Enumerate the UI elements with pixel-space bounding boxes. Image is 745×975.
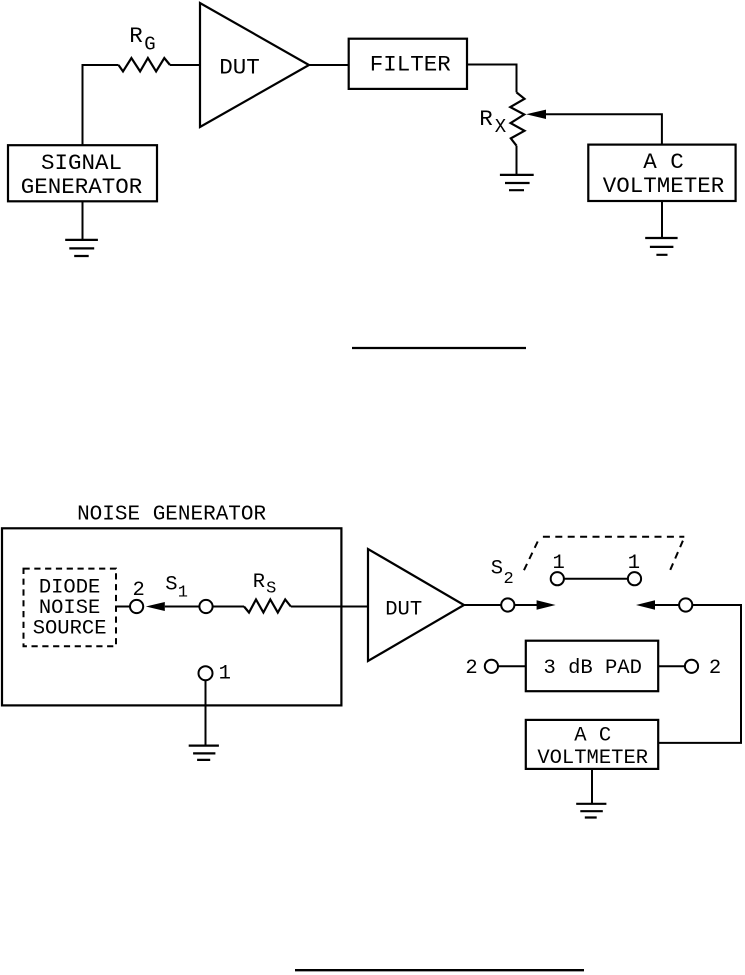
- wiper arrow wire to AC voltmeter: [526, 110, 546, 119]
- node terminal 1 (right): [628, 572, 641, 585]
- block AC VOLTMETER (bottom): [526, 720, 658, 769]
- wire terminal 2 to pad: [498, 665, 526, 667]
- wire ACV bottom to ground: [591, 769, 593, 804]
- svg-text:DUT: DUT: [219, 54, 260, 80]
- op-amp DUT (bottom): [368, 549, 464, 661]
- block FILTER: [349, 39, 467, 89]
- svg-text:R: R: [129, 23, 143, 49]
- svg-text:1: 1: [219, 663, 231, 686]
- op-amp DUT (top): [200, 3, 309, 127]
- svg-text:2: 2: [132, 579, 144, 602]
- svg-text:1: 1: [178, 584, 188, 603]
- wire between terminals 1-1: [564, 578, 628, 580]
- svg-text:GENERATOR: GENERATOR: [21, 174, 143, 200]
- wire SG to ground: [82, 201, 84, 240]
- arrow from S2: [514, 604, 538, 606]
- wire from signal generator to RG: [83, 65, 119, 145]
- block SIGNAL GENERATOR: [8, 145, 157, 201]
- svg-text:R: R: [253, 571, 265, 594]
- separator line (figure 2): [295, 969, 584, 971]
- node terminal 2 (left of pad): [485, 660, 498, 673]
- svg-text:2: 2: [709, 657, 721, 680]
- node (right switch contact): [679, 598, 692, 611]
- node switch S2: [501, 598, 514, 611]
- block 3 dB PAD: [526, 641, 658, 692]
- svg-text:S: S: [266, 580, 276, 599]
- resistor RG: [119, 58, 171, 71]
- node terminal 1 (left, S2 position 1): [551, 572, 564, 585]
- node terminal 2 (right of pad): [685, 660, 698, 673]
- svg-text:1: 1: [553, 552, 565, 575]
- wire DUT to FILTER: [309, 64, 349, 66]
- wire RX to ground: [516, 146, 518, 175]
- node terminal 2 (S1): [130, 600, 143, 613]
- svg-text:2: 2: [465, 657, 477, 680]
- svg-text:G: G: [144, 34, 155, 56]
- svg-text:1: 1: [628, 552, 640, 575]
- svg-text:A C: A C: [574, 725, 611, 748]
- svg-text:VOLTMETER: VOLTMETER: [537, 747, 648, 770]
- separator line (figure 1): [352, 347, 526, 349]
- wire terminal 1 to ground (crosses box bottom): [205, 680, 207, 745]
- potentiometer RX: [510, 92, 524, 145]
- wire RS to DUT (crosses box edge): [291, 606, 368, 608]
- arrow into right node: [636, 600, 655, 609]
- wire FILTER to RX: [467, 65, 517, 93]
- wire DUT to S2: [464, 604, 501, 606]
- svg-text:S: S: [165, 574, 177, 597]
- svg-text:X: X: [495, 116, 507, 138]
- svg-text:SOURCE: SOURCE: [33, 617, 107, 640]
- ground under AC voltmeter (top): [645, 238, 677, 255]
- wire RG to DUT: [170, 64, 200, 66]
- switch S1 arrow: [146, 602, 165, 611]
- block AC VOLTMETER (top): [588, 145, 735, 201]
- svg-text:DIODE: DIODE: [39, 576, 101, 599]
- svg-text:VOLTMETER: VOLTMETER: [603, 173, 725, 199]
- ground under AC voltmeter (bottom): [576, 804, 606, 818]
- svg-text:NOISE GENERATOR: NOISE GENERATOR: [77, 503, 266, 526]
- svg-text:2: 2: [504, 570, 514, 589]
- block NOISE GENERATOR: [2, 528, 341, 705]
- wire ACV to ground: [661, 201, 663, 238]
- svg-text:FILTER: FILTER: [370, 51, 451, 77]
- svg-text:3 dB PAD: 3 dB PAD: [543, 657, 641, 680]
- svg-text:A C: A C: [643, 149, 684, 175]
- node terminal 1 (noise generator): [199, 666, 213, 680]
- ground under noise generator: [189, 746, 219, 760]
- block DIODE NOISE SOURCE (dashed): [24, 569, 117, 647]
- wire S1 to RS: [213, 606, 244, 608]
- ground under RX: [500, 175, 534, 190]
- dashed connector outline (parallelogram): [523, 537, 684, 572]
- svg-text:R: R: [479, 106, 493, 132]
- wire right node to AC voltmeter: [658, 605, 741, 743]
- svg-text:S: S: [491, 558, 503, 581]
- svg-text:SIGNAL: SIGNAL: [41, 150, 122, 176]
- resistor RS: [244, 600, 291, 613]
- wire diode source to terminal 2: [115, 606, 130, 608]
- ground under signal generator: [65, 240, 98, 256]
- node switch S1: [199, 600, 212, 613]
- wire pad to terminal 2 (right): [658, 665, 685, 667]
- svg-text:DUT: DUT: [385, 598, 422, 621]
